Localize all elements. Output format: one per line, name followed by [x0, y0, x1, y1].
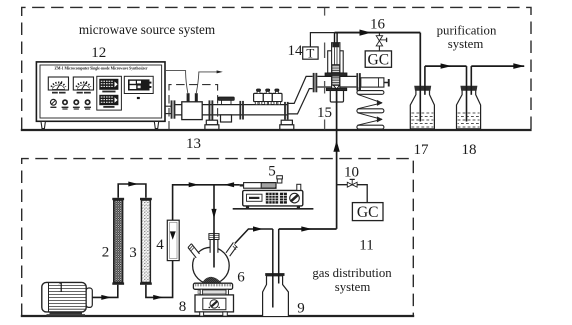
GC box top (online analyser): [365, 51, 391, 68]
svg-text:purification: purification: [437, 23, 497, 37]
branch to sampling valve 10 and GC 11: [337, 179, 368, 202]
svg-text:T: T: [306, 46, 314, 61]
reactor holder box below waveguide: [330, 91, 343, 102]
flange E: [313, 73, 315, 92]
reactor quartz tube: [332, 43, 340, 89]
center neck: [210, 234, 218, 253]
syringe pump 5: [233, 176, 314, 209]
sliding short plunger barrel: [361, 78, 384, 87]
front panel: [203, 298, 226, 310]
bubbler bottle 9: [263, 229, 289, 316]
line bottle 17 to bottle 18: [425, 63, 467, 68]
three-stub tuner stub 3: [272, 89, 282, 105]
svg-text:gas distribution: gas distribution: [312, 266, 392, 280]
knob K1 power switch: [51, 99, 57, 105]
liquid in bottle 17: [411, 113, 433, 127]
arrow on top gas line: [360, 30, 372, 36]
svg-text:12: 12: [91, 45, 106, 61]
coil turn bar 1: [357, 91, 384, 95]
T box: [303, 47, 318, 59]
pusher tower: [277, 179, 282, 183]
shelf: [233, 208, 314, 210]
needle hub: [240, 184, 244, 186]
panel outer case: [36, 62, 165, 121]
coil hanger: [357, 87, 359, 91]
flange D: [284, 102, 286, 120]
pump fins: [49, 286, 87, 310]
feed tube inside flask: [213, 233, 215, 268]
svg-text:system: system: [335, 280, 371, 294]
outlet line from bottle 18: [471, 63, 524, 69]
svg-text:18: 18: [462, 142, 477, 158]
control knob: [290, 193, 300, 203]
svg-text:1: 1: [57, 280, 65, 296]
gas washing bottle 17: [410, 66, 434, 129]
coupler under-box: [221, 115, 232, 122]
top gas line from reactor to bottle 17: [335, 30, 421, 122]
coil crossover 2: [358, 113, 383, 120]
outlet tube flask 6 to line: [235, 226, 273, 243]
wire column 3 to flowmeter 4: [146, 261, 173, 300]
coil condenser beside reactor: [357, 87, 384, 129]
stopper 9: [265, 273, 284, 276]
coupler flat cap: [218, 97, 234, 100]
funnel tip of inner tube: [333, 85, 339, 89]
dashed enclosure around magnetron: [169, 85, 218, 130]
flange A: [171, 100, 173, 118]
svg-text:11: 11: [359, 237, 373, 253]
stopper 17: [414, 86, 431, 91]
three-neck flask 6: [186, 233, 239, 284]
wire probe-right with arrow: [196, 72, 217, 93]
main feed riser to reactor: [333, 89, 339, 229]
wire tee down into flask 6: [211, 185, 216, 268]
drying column 3: [140, 198, 152, 285]
three-stub tuner stub 1: [254, 89, 264, 105]
wire pump to column 2: [92, 285, 118, 300]
sampling valve 16: [376, 33, 386, 51]
left neck: [186, 244, 199, 258]
svg-text:ZM-1 Microcomputer Single-mode: ZM-1 Microcomputer Single-mode Microwave…: [55, 65, 148, 70]
three-stub tuner stub 2: [263, 89, 272, 105]
panel foot left: [41, 121, 45, 128]
outlet tube 17: [424, 66, 426, 95]
indicator LED: [137, 97, 140, 99]
support pedestal 2: [281, 120, 292, 125]
stub from panel to first flange: [165, 105, 171, 107]
wire probe-left to panel: [165, 71, 188, 93]
svg-text:microwave source system: microwave source system: [79, 22, 216, 37]
dip tube 18: [466, 66, 468, 121]
svg-text:5: 5: [268, 164, 276, 180]
right neck: [226, 242, 239, 256]
knob K4: [85, 99, 91, 105]
upper waveguide with reactor 15: [313, 8, 390, 130]
heating stirrer 8: [193, 277, 233, 316]
meter M1: [48, 77, 68, 90]
contact hatch between flask and plate: [202, 277, 222, 284]
spacer band: [198, 290, 229, 293]
waveguide Z-bend riser: [288, 76, 312, 114]
knob K2: [62, 99, 68, 105]
display D2: [99, 95, 118, 105]
keypad block 2: [280, 193, 287, 204]
feet: [246, 206, 249, 208]
flask bulb: [193, 247, 230, 284]
panel inner face: [40, 65, 162, 118]
meter M2: [73, 77, 93, 90]
magnetron box: [182, 102, 202, 120]
arrow from syringe pump toward tee: [224, 182, 234, 187]
dip tube 9: [272, 229, 274, 308]
reactor outer jacket: [328, 51, 344, 73]
outlet tube 9: [278, 229, 280, 284]
svg-text:14: 14: [288, 43, 304, 59]
stopper 18: [460, 86, 477, 91]
svg-text:9: 9: [297, 301, 305, 317]
frame: top dashed box (microwave source + purification systems): [22, 7, 531, 130]
frame: top box solid baseline: [21, 129, 532, 131]
frame: bottom box solid baseline: [21, 315, 414, 317]
stirrer body: [195, 295, 234, 312]
svg-text:17: 17: [414, 142, 430, 158]
reactor top collar: [325, 73, 347, 76]
posts: [200, 289, 202, 295]
plunger rod: [384, 82, 388, 84]
svg-text:system: system: [448, 37, 484, 51]
middle display frame: [97, 76, 122, 110]
magnetron probe left: [187, 93, 190, 102]
GC box bottom 11: [352, 203, 383, 221]
right control module frame: [124, 76, 153, 93]
svg-text:GC: GC: [368, 51, 390, 68]
flange B: [209, 100, 211, 120]
pump 5 body: [243, 190, 303, 206]
pump base: [50, 312, 83, 314]
wire flowmeter 4 to mixing tee: [173, 182, 240, 220]
pump body: [42, 282, 86, 312]
control panel U12 microwave generator cabinet: [36, 62, 165, 129]
svg-text:13: 13: [186, 136, 201, 152]
stirrer legs: [200, 312, 204, 316]
numeric labels: [57, 16, 476, 316]
svg-text:3: 3: [129, 245, 137, 261]
display D1: [99, 79, 118, 90]
up arrow on riser: [333, 140, 339, 151]
top plate with scale: [193, 283, 232, 289]
dip tube 17 (inside bottle): [419, 86, 421, 122]
liquid in bottle 18: [458, 113, 480, 127]
drying column 2: [112, 198, 124, 285]
upper waveguide tube: [317, 75, 356, 77]
knob on stirrer: [210, 300, 218, 308]
frame: bottom dashed box (gas distribution system): [22, 159, 414, 316]
display window: [247, 194, 263, 201]
flange C: [239, 101, 241, 120]
outlet tube 18: [470, 66, 472, 95]
dip line into bottle 17: [419, 33, 421, 122]
waveguide train 13: [165, 70, 313, 129]
support pedestal 1: [206, 120, 217, 125]
coil turn bar 2: [357, 109, 384, 113]
svg-text:2: 2: [102, 245, 110, 261]
catalyst bed hatch: [332, 65, 340, 86]
thermocouple box 14: [303, 33, 335, 61]
syringe barrel: [244, 183, 276, 189]
svg-text:15: 15: [317, 105, 332, 121]
coil turn bar 3: [357, 125, 384, 129]
knob K3: [73, 99, 79, 105]
flowmeter 4: [167, 220, 179, 260]
coil crossover 1: [358, 94, 383, 103]
knob labels: [50, 107, 56, 108]
svg-text:8: 8: [179, 299, 187, 315]
air pump 1: [42, 282, 92, 316]
keypad block 1: [266, 193, 278, 204]
thermowell inner tube: [334, 33, 336, 43]
wire bottle 9 to riser: [279, 226, 337, 231]
magnetron probe right: [195, 93, 198, 102]
svg-text:GC: GC: [357, 204, 379, 221]
panel foot right: [154, 121, 158, 128]
reactor bottom collar: [326, 88, 347, 91]
rear post: [297, 184, 301, 190]
slash mark: [205, 284, 209, 289]
meter labels: [52, 92, 58, 94]
lower waveguide tube: [175, 104, 288, 106]
dashed section line at reactor: [324, 8, 326, 130]
svg-text:10: 10: [344, 165, 359, 181]
flange F: [356, 73, 358, 91]
svg-text:4: 4: [156, 237, 164, 253]
right display module: [128, 79, 150, 90]
gas washing bottle 18: [457, 66, 481, 129]
valve 10: [347, 182, 352, 187]
top compression fitting: [332, 43, 339, 48]
svg-text:16: 16: [370, 16, 386, 32]
line T to reactor top: [310, 33, 334, 47]
plunger T-handle: [388, 79, 390, 87]
pump end cap: [86, 288, 92, 307]
svg-text:6: 6: [237, 270, 245, 286]
wire column 2 to column 3: [118, 182, 146, 198]
